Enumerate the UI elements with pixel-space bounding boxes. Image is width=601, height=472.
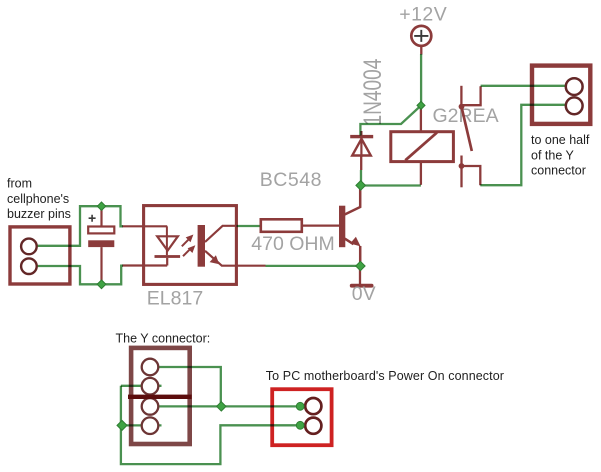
- connector J1 (buzzer pins): [10, 227, 70, 284]
- junction G (Y pins 2+4): [117, 420, 127, 430]
- svg-text:EL817: EL817: [147, 288, 203, 310]
- junction F (Y pins 1+3): [217, 402, 226, 411]
- svg-text:cellphone's: cellphone's: [7, 192, 69, 206]
- junction A (+12V / coil / diode): [417, 101, 425, 109]
- connector J3 separator bar: [128, 395, 192, 399]
- junction B (diode / coil / collector): [356, 181, 366, 191]
- svg-text:To PC motherboard's Power On c: To PC motherboard's Power On connector: [266, 369, 504, 383]
- svg-text:+12V: +12V: [399, 4, 447, 26]
- wire diode anode to node B: [360, 170, 362, 182]
- svg-text:to one half: to one half: [531, 133, 590, 147]
- junction C (cap top): [97, 202, 105, 210]
- diode D1 1N4004: [350, 131, 373, 170]
- note: from cellphone's buzzer pins: [7, 177, 71, 222]
- wire +12V to junction A: [420, 54, 422, 104]
- connector J2 pin circles: [566, 78, 583, 114]
- wire Y pin 2 to left rail: [121, 385, 162, 387]
- svg-text:470 OHM: 470 OHM: [251, 233, 334, 255]
- wire left rail around bottom to J4 pin 2: [121, 386, 298, 464]
- relay coil K1: [391, 107, 454, 185]
- junction D (cap bottom): [97, 280, 106, 289]
- transistor Q1 BC548: [339, 188, 361, 285]
- wire junction F to J4 pin 1: [221, 405, 298, 407]
- wire contact top to connector J2 pin 1: [481, 85, 566, 87]
- wire opto collector to resistor R1: [237, 225, 260, 227]
- svg-text:BC548: BC548: [260, 169, 322, 191]
- svg-text:of the Y: of the Y: [531, 148, 575, 162]
- wire Y pin 3 to junction F: [159, 405, 218, 407]
- relay contact K1 switch: [459, 86, 481, 188]
- power +12V supply symbol P1: [411, 26, 431, 55]
- connector J3 pin circles: [142, 359, 159, 434]
- capacitor C1 (polarized): [88, 206, 114, 285]
- wire Y pin 1 down to junction F: [159, 367, 221, 406]
- wire coil bottom to node B: [362, 184, 421, 186]
- optocoupler light arrows: [182, 235, 196, 257]
- wire Y pin 4 to left rail: [122, 424, 162, 426]
- optocoupler LED: [122, 226, 180, 265]
- pin dot J4 pin 1: [296, 402, 304, 410]
- junction E (emitter): [356, 261, 365, 270]
- svg-text:from: from: [7, 177, 32, 191]
- wire buzzer pin 2 to cap bottom node D: [37, 266, 123, 285]
- svg-text:buzzer pins: buzzer pins: [7, 207, 71, 221]
- svg-text:0V: 0V: [352, 283, 376, 305]
- ground GND 0V: [350, 284, 374, 288]
- note: to one half of the Y connector: [531, 133, 590, 178]
- connector J2 (one half of Y connector): [532, 66, 590, 124]
- svg-text:The Y connector:: The Y connector:: [116, 332, 211, 346]
- optocoupler phototransistor: [198, 225, 266, 267]
- connector J4 (PC power-on, red): [272, 389, 331, 445]
- resistor R1: [261, 219, 339, 232]
- connector J4 pin circles: [305, 398, 321, 434]
- svg-text:1N4004: 1N4004: [358, 59, 386, 126]
- wire opto emitter to node E: [266, 265, 359, 267]
- wire buzzer pin 1 to cap top node C: [37, 206, 123, 246]
- pin dot J4 pin 2: [296, 421, 304, 429]
- connector J3 (Y connector, 4-pin): [131, 348, 190, 444]
- wire junction A to diode cathode: [360, 106, 421, 136]
- connector J1 pin circles: [21, 239, 37, 274]
- svg-text:connector: connector: [531, 164, 586, 178]
- wire contact bottom to connector J2 pin 2: [480, 105, 566, 185]
- optocoupler U1 EL817 box: [144, 206, 237, 285]
